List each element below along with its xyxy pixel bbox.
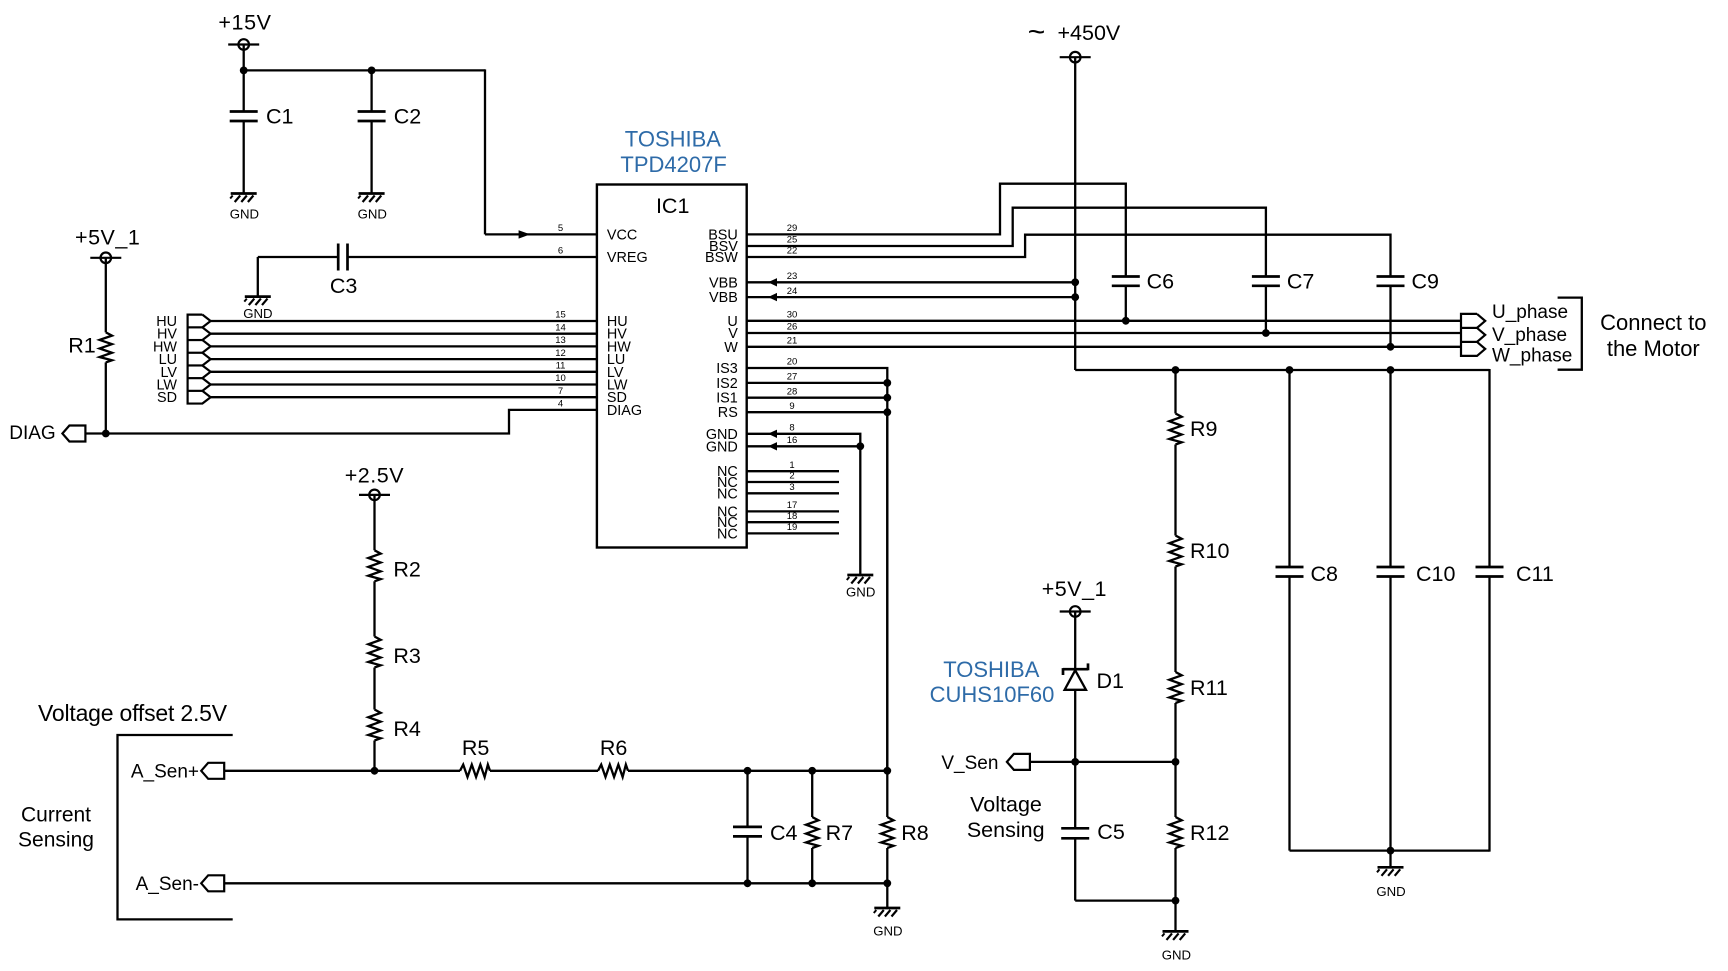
svg-text:R4: R4 <box>393 717 421 741</box>
svg-text:R3: R3 <box>393 644 421 668</box>
junction dot at +15V rail / C1 <box>240 67 248 75</box>
svg-text:GND: GND <box>846 585 875 600</box>
IC right pin numbers <box>787 223 798 533</box>
svg-text:C3: C3 <box>330 274 358 298</box>
resistor R2 <box>368 550 380 581</box>
power +15V label <box>218 10 271 34</box>
svg-text:GND: GND <box>230 207 259 222</box>
wire V phase <box>747 332 1461 334</box>
svg-text:7: 7 <box>558 386 563 397</box>
wire U phase <box>747 320 1461 322</box>
svg-text:the Motor: the Motor <box>1607 336 1700 361</box>
svg-text:NC: NC <box>717 486 738 502</box>
svg-text:D1: D1 <box>1097 669 1124 693</box>
junction dot A_Sen-/R8 <box>883 879 891 887</box>
label R4 <box>393 717 421 741</box>
wire A_Sen+ segment 3 <box>628 770 887 772</box>
svg-text:8: 8 <box>789 423 794 434</box>
resistor R9 with leads <box>1169 370 1181 445</box>
wire D1 to V_Sen <box>1074 690 1076 762</box>
label R12 <box>1190 821 1229 845</box>
connector A_Sen- <box>201 875 224 891</box>
svg-text:17: 17 <box>787 500 798 511</box>
capacitor C6 <box>1112 277 1140 321</box>
svg-text:SD: SD <box>157 390 177 406</box>
svg-text:R6: R6 <box>600 736 628 760</box>
wire HW to IC <box>211 345 597 347</box>
svg-text:Voltage offset 2.5V: Voltage offset 2.5V <box>38 700 228 726</box>
svg-text:V_Sen: V_Sen <box>941 753 998 774</box>
ground under C1 <box>230 194 257 203</box>
svg-text:V_phase: V_phase <box>1492 325 1567 346</box>
svg-text:21: 21 <box>787 336 798 347</box>
svg-text:19: 19 <box>787 522 798 533</box>
wire GND pin8 <box>747 430 861 447</box>
label R11 <box>1190 676 1228 700</box>
resistor R7 with leads <box>806 771 818 884</box>
svg-text:W_phase: W_phase <box>1492 345 1572 366</box>
wire bottom gnd stub <box>1174 901 1176 932</box>
resistor R1 <box>100 332 112 362</box>
capacitor C9 <box>1377 277 1405 347</box>
svg-text:W: W <box>724 340 738 356</box>
power symbol +2.5V <box>359 490 390 551</box>
svg-text:NC: NC <box>717 526 738 542</box>
label Sensing (voltage) <box>967 818 1045 842</box>
label R5 <box>462 736 490 760</box>
wire HU to IC <box>211 320 597 322</box>
svg-text:VBB: VBB <box>709 275 738 291</box>
diode D1 schottky <box>1063 663 1088 689</box>
svg-text:25: 25 <box>787 235 798 246</box>
wire RS column to R8 <box>886 412 888 771</box>
label CUHS10F60 <box>930 682 1055 707</box>
svg-text:~: ~ <box>1028 16 1046 49</box>
wire LW to IC <box>211 383 597 385</box>
junction dot IS1 <box>883 394 891 402</box>
svg-text:C1: C1 <box>266 104 293 128</box>
power +5V_1 label (right) <box>1042 577 1107 601</box>
wire R4 to A_Sen+ <box>373 741 375 771</box>
wire R8 to ground <box>886 883 888 908</box>
wire BSW to C9 <box>747 235 1391 277</box>
junction dot D1/V_Sen <box>1071 758 1079 766</box>
label Voltage (sensing) <box>970 793 1042 817</box>
IC left pin names <box>607 227 648 419</box>
motor connector block U/V/W <box>1461 314 1485 356</box>
svg-text:Sensing: Sensing <box>18 828 94 851</box>
wire A_Sen- <box>224 882 887 884</box>
label R10 <box>1190 539 1229 563</box>
junction dot bus/R9 <box>1172 366 1180 374</box>
junction dot R11/V_Sen <box>1172 758 1180 766</box>
wire W phase <box>747 346 1461 348</box>
svg-text:RS: RS <box>718 405 738 421</box>
wire C5 bottom to R12 bottom <box>1075 899 1175 901</box>
capacitor C4 <box>733 771 762 884</box>
svg-text:GND: GND <box>706 439 738 455</box>
arrow into VCC pin <box>519 230 531 238</box>
capacitor C7 <box>1252 277 1280 334</box>
junction dot A_Sen+/R8 <box>883 767 891 775</box>
wire HV to IC <box>211 333 597 335</box>
svg-text:1: 1 <box>789 460 794 471</box>
junction dot bus/C8 <box>1286 366 1294 374</box>
wire +15V rail <box>244 69 485 71</box>
svg-text:R5: R5 <box>462 736 490 760</box>
ground under R12 <box>1162 931 1189 940</box>
ground under C2 <box>358 194 385 203</box>
wire A_Sen+ segment 2 <box>490 770 598 772</box>
label C8 <box>1311 562 1339 586</box>
svg-text:+15V: +15V <box>218 10 271 34</box>
wire LV to IC <box>211 371 597 373</box>
junction dot A_Sen-/C4 <box>744 879 752 887</box>
svg-text:15: 15 <box>555 310 566 321</box>
svg-text:22: 22 <box>787 246 798 257</box>
label R9 <box>1190 417 1217 441</box>
wire IS2 <box>747 382 888 384</box>
svg-text:+5V_1: +5V_1 <box>1042 577 1107 601</box>
label LU <box>159 352 177 368</box>
junction dot IS2 <box>883 379 891 387</box>
wire GND pin16 <box>747 442 861 450</box>
wire +450V bus <box>1075 369 1489 371</box>
power +450V label <box>1028 16 1121 49</box>
label R8 <box>901 821 929 845</box>
label HV <box>157 327 177 343</box>
label Current <box>21 803 91 826</box>
junction dot C6/U <box>1122 317 1130 325</box>
label U_phase <box>1492 302 1568 323</box>
bracket connect-to-motor <box>1558 298 1582 370</box>
label R6 <box>600 736 628 760</box>
wire BSV to C7 <box>747 208 1266 277</box>
junction dot at rail / C2 <box>368 67 376 75</box>
label C9 <box>1412 269 1439 293</box>
svg-text:C7: C7 <box>1287 269 1314 293</box>
svg-text:27: 27 <box>787 372 798 383</box>
junction dot bus/C10 <box>1387 366 1395 374</box>
svg-text:DIAG: DIAG <box>607 403 642 419</box>
svg-text:R1: R1 <box>68 333 95 357</box>
label C3 <box>330 274 358 298</box>
wire R11 to V_Sen node <box>1174 703 1176 762</box>
label GND under C3 <box>243 306 272 321</box>
resistor R3 <box>368 637 380 668</box>
label GND under R8 <box>873 924 902 939</box>
wire BSU to C6 <box>747 184 1126 277</box>
label TPD4207F <box>620 152 726 177</box>
connector DIAG <box>62 426 85 442</box>
junction dot GND16 <box>856 442 864 450</box>
label Connect to <box>1600 310 1706 335</box>
wire IS1 <box>747 397 888 399</box>
label GND under C2 <box>358 207 387 222</box>
junction dot R12/gnd <box>1172 897 1180 905</box>
label Voltage offset 2.5V <box>38 700 228 726</box>
svg-text:+5V_1: +5V_1 <box>75 226 140 250</box>
svg-text:+450V: +450V <box>1058 21 1121 45</box>
label R1 <box>68 333 95 357</box>
svg-text:VBB: VBB <box>709 290 738 306</box>
svg-text:IS2: IS2 <box>716 376 738 392</box>
label GND under C1 <box>230 207 259 222</box>
resistor R4 <box>368 710 380 741</box>
capacitor C10 with leads <box>1377 370 1405 851</box>
wire R1 to DIAG net <box>105 362 107 433</box>
junction dot C9/W <box>1387 343 1395 351</box>
label D1 <box>1097 669 1124 693</box>
resistor R6 <box>598 765 628 777</box>
svg-text:4: 4 <box>558 399 563 410</box>
IC U1 body TPD4207F <box>597 185 747 548</box>
junction dot VBB1 <box>1071 278 1079 286</box>
svg-text:VREG: VREG <box>607 250 648 266</box>
svg-text:GND: GND <box>1376 884 1405 899</box>
wire R12 to ground node <box>1174 848 1176 901</box>
svg-text:30: 30 <box>787 310 798 321</box>
label C2 <box>394 104 421 128</box>
svg-text:TOSHIBA: TOSHIBA <box>943 657 1040 682</box>
label V_phase <box>1492 325 1567 346</box>
svg-text:R2: R2 <box>393 558 420 582</box>
junction dot DIAG/R1 <box>102 430 110 438</box>
svg-text:R11: R11 <box>1190 676 1228 700</box>
label HU <box>156 314 177 330</box>
wire V_Sen to R12 <box>1030 761 1176 763</box>
label TOSHIBA (D1) <box>943 657 1040 682</box>
svg-text:Current: Current <box>21 803 91 826</box>
bracket current sensing <box>118 735 233 919</box>
svg-text:11: 11 <box>556 361 566 372</box>
label R2 <box>393 558 420 582</box>
capacitor C3 <box>338 244 347 271</box>
svg-text:GND: GND <box>358 207 387 222</box>
wire IC ground drop <box>859 446 861 575</box>
svg-text:C4: C4 <box>770 821 798 845</box>
svg-text:IS3: IS3 <box>716 361 738 377</box>
ground under capacitor bus <box>1377 867 1404 876</box>
label R3 <box>393 644 421 668</box>
power symbol +5V_1 (right) <box>1060 606 1091 669</box>
svg-text:R12: R12 <box>1190 821 1229 845</box>
resistor R8 with leads <box>881 771 893 884</box>
label IC1 <box>656 194 689 218</box>
svg-text:C10: C10 <box>1416 562 1455 586</box>
capacitor C5 <box>1061 762 1089 901</box>
svg-text:10: 10 <box>555 373 566 384</box>
svg-text:+2.5V: +2.5V <box>345 463 404 487</box>
resistor R5 <box>460 765 490 777</box>
junction dot R4/A_Sen+ <box>371 767 379 775</box>
resistor R10 <box>1169 536 1181 567</box>
wire SD to IC <box>211 396 597 398</box>
label A_Sen- <box>136 874 199 895</box>
junction dot C10/bus2 <box>1387 847 1395 855</box>
wire R10-R11 <box>1174 567 1176 673</box>
ground under C3 <box>244 297 270 306</box>
svg-text:C6: C6 <box>1147 269 1175 293</box>
power +2.5V label <box>345 463 404 487</box>
junction dot RS <box>883 408 891 416</box>
label C4 <box>770 821 798 845</box>
svg-text:R7: R7 <box>826 821 853 845</box>
label C10 <box>1416 562 1455 586</box>
svg-text:6: 6 <box>558 246 563 257</box>
svg-text:C5: C5 <box>1097 820 1125 844</box>
svg-text:TOSHIBA: TOSHIBA <box>625 126 722 151</box>
svg-text:Voltage: Voltage <box>970 793 1042 817</box>
wire capacitor ground bus <box>1290 849 1490 851</box>
power symbol +5V_1 (left) <box>90 252 121 332</box>
svg-text:3: 3 <box>789 482 794 493</box>
svg-text:C8: C8 <box>1311 562 1339 586</box>
wire R3-R4 <box>373 668 375 710</box>
wire VBB pin23 to +450V <box>747 278 1075 286</box>
wire R9-R10 <box>1174 445 1176 536</box>
svg-text:18: 18 <box>787 511 798 522</box>
label TOSHIBA (IC) <box>625 126 722 151</box>
svg-text:GND: GND <box>1162 948 1191 963</box>
power +5V_1 label (left) <box>75 226 140 250</box>
svg-text:24: 24 <box>787 286 798 297</box>
label DIAG <box>9 423 55 444</box>
svg-text:Connect to: Connect to <box>1600 310 1706 335</box>
wire RS <box>747 411 888 413</box>
junction dot A_Sen+/C4 <box>744 767 752 775</box>
capacitor C11 with leads <box>1476 369 1504 852</box>
svg-text:BSW: BSW <box>705 250 738 266</box>
svg-text:CUHS10F60: CUHS10F60 <box>930 682 1055 707</box>
resistor R11 <box>1169 672 1181 703</box>
svg-text:23: 23 <box>787 271 798 282</box>
label GND under IC <box>846 585 875 600</box>
wire IS3 <box>747 368 888 771</box>
wire VREG to IC <box>348 256 597 258</box>
wire C3 to ground <box>258 257 338 297</box>
svg-text:R9: R9 <box>1190 417 1217 441</box>
capacitor C2 <box>358 70 386 193</box>
junction dot VBB2 <box>1071 293 1079 301</box>
label W_phase <box>1492 345 1572 366</box>
svg-text:20: 20 <box>787 357 798 368</box>
label GND under R12 <box>1162 948 1191 963</box>
label Sensing (current) <box>18 828 94 851</box>
label GND under capacitor bus <box>1376 884 1405 899</box>
svg-text:9: 9 <box>789 401 794 412</box>
label C11 <box>1516 562 1554 586</box>
label C7 <box>1287 269 1314 293</box>
junction dot A_Sen-/R7 <box>808 879 816 887</box>
wire DIAG to IC <box>85 410 597 434</box>
label R7 <box>826 821 853 845</box>
wire R2-R3 <box>373 581 375 636</box>
wire +15V rail drop to VCC <box>485 69 597 234</box>
svg-text:C9: C9 <box>1412 269 1439 293</box>
wire VBB pin24 to +450V <box>747 293 1075 301</box>
svg-text:VCC: VCC <box>607 227 637 243</box>
svg-text:29: 29 <box>787 223 798 234</box>
IC right pin names <box>705 227 738 542</box>
svg-text:26: 26 <box>787 322 798 333</box>
svg-text:C11: C11 <box>1516 562 1554 586</box>
svg-text:R8: R8 <box>901 821 929 845</box>
capacitor C8 with leads <box>1276 370 1304 851</box>
svg-text:GND: GND <box>243 306 272 321</box>
svg-text:IC1: IC1 <box>656 194 689 218</box>
label A_Sen+ <box>131 762 199 783</box>
junction dot C7/V <box>1262 329 1270 337</box>
connector V_Sen <box>1007 754 1030 770</box>
svg-text:GND: GND <box>873 924 902 939</box>
svg-text:28: 28 <box>787 386 798 397</box>
label C5 <box>1097 820 1125 844</box>
label HW <box>153 339 177 355</box>
svg-text:13: 13 <box>555 335 566 346</box>
svg-text:5: 5 <box>558 223 563 234</box>
capacitor C1 <box>230 70 258 193</box>
label C1 <box>266 104 293 128</box>
svg-text:Sensing: Sensing <box>967 818 1045 842</box>
power symbol +15V <box>228 39 259 70</box>
IC left pin numbers <box>555 223 566 410</box>
label LW <box>156 378 177 394</box>
svg-text:R10: R10 <box>1190 539 1229 563</box>
NC pin stubs <box>747 471 839 533</box>
svg-text:A_Sen+: A_Sen+ <box>131 762 199 783</box>
svg-text:C2: C2 <box>394 104 421 128</box>
label LV <box>160 365 177 381</box>
wire LU to IC <box>211 358 597 360</box>
svg-text:16: 16 <box>787 435 798 446</box>
ground under R8 <box>874 908 901 917</box>
connector A_Sen+ <box>201 763 224 779</box>
svg-text:U_phase: U_phase <box>1492 302 1568 323</box>
input connector block HU-SD <box>188 315 211 404</box>
junction dot A_Sen+/R7 <box>808 767 816 775</box>
svg-text:14: 14 <box>555 322 566 333</box>
wire bus2 gnd stub <box>1389 851 1391 868</box>
label SD <box>157 390 177 406</box>
ground under IC <box>847 575 874 584</box>
svg-text:12: 12 <box>555 348 566 359</box>
wire A_Sen+ segment 1 <box>224 770 460 772</box>
svg-text:A_Sen-: A_Sen- <box>136 874 199 895</box>
power symbol +450V <box>1060 52 1091 370</box>
svg-text:DIAG: DIAG <box>9 423 55 444</box>
label the Motor <box>1607 336 1700 361</box>
resistor R12 with leads <box>1169 762 1181 848</box>
label C6 <box>1147 269 1175 293</box>
svg-text:TPD4207F: TPD4207F <box>620 152 726 177</box>
label V_Sen <box>941 753 998 774</box>
